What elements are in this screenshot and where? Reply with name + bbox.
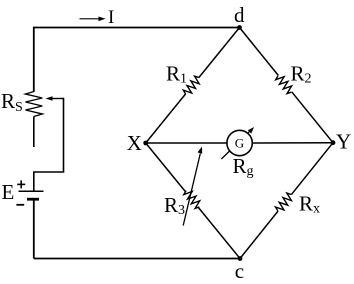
svg-text:G: G <box>235 136 244 151</box>
svg-text:d: d <box>234 3 245 27</box>
wire: arm lower segment <box>240 211 278 259</box>
svg-text:c: c <box>235 259 244 283</box>
wire: wiper tap down to battery <box>34 98 64 191</box>
resistor R1 zigzag <box>183 76 199 94</box>
wire: arm lower segment <box>146 94 186 143</box>
svg-text:R2: R2 <box>291 62 312 87</box>
wire: left vertical from top-left corner down to Rs <box>33 27 35 92</box>
node d junction dot <box>237 25 242 30</box>
svg-text:R1: R1 <box>166 62 187 87</box>
wire: galvanometer to Y <box>252 142 333 144</box>
battery E: minus plate (short thick) <box>27 198 39 201</box>
wire: middle X to galvanometer <box>146 142 227 144</box>
wire: arm lower segment <box>292 92 333 143</box>
current arrow I above top wire <box>80 17 106 22</box>
arrow through galvanometer (variable) <box>221 127 254 159</box>
battery E: plus plate (long) <box>19 190 44 192</box>
svg-text:R3: R3 <box>164 193 185 218</box>
wire: below battery to bottom-left corner <box>33 199 35 258</box>
battery plus sign <box>17 180 25 188</box>
node c junction dot <box>238 256 243 261</box>
svg-text:RS: RS <box>1 89 23 115</box>
wire: stub below Rs (unused rheostat terminal) <box>33 117 35 148</box>
resistor R2 zigzag <box>276 76 292 94</box>
svg-text:Rg: Rg <box>233 154 254 179</box>
svg-text:E: E <box>2 180 15 204</box>
battery minus sign <box>16 204 24 206</box>
wire: top horizontal from left loop to node d <box>34 27 240 29</box>
wire: arm d-X upper segment <box>199 28 240 78</box>
node Y junction dot <box>331 140 336 145</box>
node X junction dot <box>143 141 148 146</box>
resistor Rx zigzag <box>276 193 292 211</box>
arrow through R3 (variable) <box>183 147 202 226</box>
svg-text:Rx: Rx <box>299 192 320 217</box>
wire: arm X-c upper segment <box>146 143 186 191</box>
wire: bottom horizontal to node c <box>34 258 240 260</box>
wire: arm d-Y upper segment <box>240 28 279 76</box>
svg-text:Y: Y <box>336 130 351 154</box>
svg-text:I: I <box>108 7 114 28</box>
resistor Rs (rheostat zigzag, vertical) <box>26 92 43 117</box>
resistor R3 zigzag <box>184 191 200 209</box>
wire: arm Y-c upper segment <box>291 143 333 195</box>
wire: arm lower segment <box>199 208 241 259</box>
galvanometer G circle <box>227 130 252 155</box>
svg-text:X: X <box>127 131 142 155</box>
wiper arrow of Rs <box>46 96 64 101</box>
